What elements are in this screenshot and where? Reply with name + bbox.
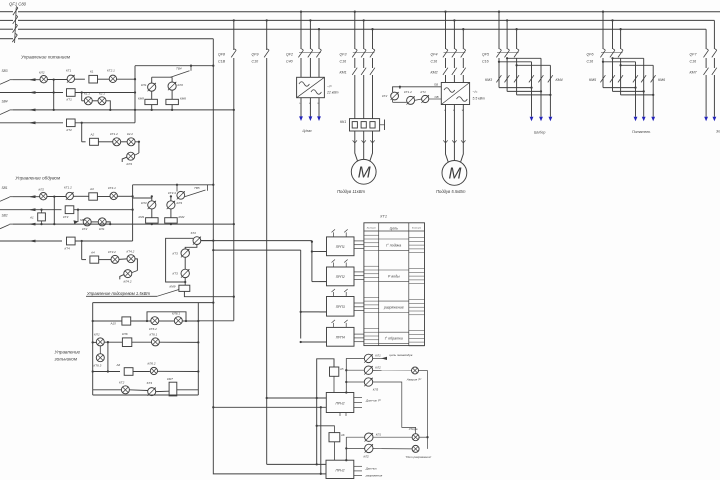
lamp KT2 aux (382, 92, 399, 100)
contact KT2o (82, 218, 91, 231)
svg-text:Управление обдувом: Управление обдувом (15, 176, 61, 181)
wire rung1 left (13, 78, 40, 81)
svg-text:Управление подогревом 1.5кВт: Управление подогревом 1.5кВт (87, 291, 151, 296)
lamp KL2 upper (364, 365, 381, 374)
wire rail B2 (131, 185, 133, 241)
svg-text:ХТ1: ХТ1 (379, 215, 387, 219)
wire rail A2 (53, 197, 55, 225)
wire rung4o left (0, 240, 62, 243)
svg-text:SB4: SB4 (2, 99, 8, 103)
svg-text:Цепь: Цепь (390, 227, 398, 231)
svg-text:Управление: Управление (55, 350, 81, 355)
svg-text:С1В: С1В (218, 60, 226, 64)
terminal device PRP3 (320, 289, 364, 316)
wire KL1 to ubora (373, 436, 412, 438)
label Управление зольником (54, 350, 81, 362)
contactor contacts KM3 KM4 (485, 75, 563, 82)
svg-text:SB3: SB3 (2, 69, 8, 73)
motor M2 5.5kW (436, 161, 467, 194)
switch TB5 (185, 185, 208, 197)
switch SB3 (0, 69, 13, 84)
svg-text:КЛ1: КЛ1 (376, 432, 382, 436)
wire zol top rail (93, 301, 215, 303)
lamp KL1 lower (365, 432, 382, 441)
svg-text:А5: А5 (339, 367, 344, 371)
wire N to PRN1 (212, 406, 326, 408)
contact KT3 heater1 (173, 249, 190, 257)
svg-text:цепь пневмодув: цепь пневмодув (389, 353, 412, 357)
circuit breaker QF9 feeder (252, 19, 270, 464)
svg-text:КМ1: КМ1 (340, 71, 347, 75)
relay coil KT1 box (67, 89, 76, 102)
wire QF6 crossover (602, 57, 655, 96)
svg-text:КТ1: КТ1 (421, 90, 427, 94)
wire bus line L1 (0, 11, 720, 13)
terminal table XT1 (364, 215, 425, 346)
switch TB4 (171, 66, 192, 78)
svg-text:QF2: QF2 (286, 53, 293, 57)
circuit breaker QF1 (9, 2, 27, 44)
device PRN2 upper (326, 393, 381, 417)
svg-text:~/=: ~/= (473, 90, 478, 94)
wire rung1o left (13, 195, 40, 198)
svg-text:КЛ2: КЛ2 (364, 455, 370, 459)
svg-text:SB1: SB1 (2, 186, 8, 190)
wire rung4 subdrop (82, 123, 86, 142)
wire rung1 c (98, 78, 110, 80)
wire sub4o b (119, 258, 127, 261)
svg-text:~/=: ~/= (327, 85, 332, 89)
svg-text:С16: С16 (431, 60, 438, 64)
wire rungD c (156, 390, 169, 392)
annotation SB1 arrow (74, 210, 86, 224)
lamp KL4 (122, 152, 139, 166)
wire PRP left bus a (311, 250, 327, 281)
label Управление питанием (21, 55, 71, 60)
wire zol bottom rail (93, 390, 199, 395)
svg-text:КМ4: КМ4 (556, 78, 563, 82)
wire pitatel outputs (634, 88, 656, 122)
wire rung4o right (75, 240, 133, 242)
wire rung2o left (0, 208, 62, 211)
wire heater chain c (184, 278, 186, 286)
wire rung4 left (0, 121, 63, 124)
svg-text:ПРН2: ПРН2 (335, 402, 344, 406)
svg-text:КЛ1: КЛ1 (99, 227, 105, 231)
svg-text:КТ4.2: КТ4.2 (127, 249, 135, 253)
contact KT4.2 (127, 249, 136, 262)
svg-text:КЛ4: КЛ4 (127, 162, 133, 166)
svg-text:5.5 кВт: 5.5 кВт (473, 97, 486, 101)
wire ubora right (419, 436, 429, 449)
circuit breaker QF8 feeder (218, 19, 236, 320)
wire bus line L2 (0, 19, 714, 21)
wire heater box (166, 238, 193, 282)
svg-text:А6: А6 (116, 363, 121, 367)
svg-text:К2.1: К2.1 (99, 92, 105, 96)
svg-text:Датчик: Датчик (365, 467, 378, 471)
svg-text:А1: А1 (29, 216, 34, 220)
wire rungC b (133, 371, 150, 373)
wire sub2o a (91, 221, 98, 223)
wire rung3 (13, 109, 235, 112)
lamp KL3 upper (364, 378, 378, 392)
wire rungA b (131, 320, 151, 322)
wire U2 to motor (443, 105, 465, 163)
svg-text:Датчик 'Р': Датчик 'Р' (365, 399, 381, 403)
lamp KL2 rung1o (39, 187, 48, 200)
svg-text:QF1 С80: QF1 С80 (9, 2, 27, 7)
contact KT3.4 o (168, 185, 185, 200)
thermal relay KK1 (340, 119, 385, 131)
relay coil KM6 coil (166, 97, 186, 105)
wire KM2 to U2 (446, 75, 464, 83)
thermostat ST2 (191, 231, 201, 245)
wire riser x320 (320, 407, 322, 475)
svg-text:Управление питанием: Управление питанием (21, 55, 71, 60)
svg-text:А2: А2 (90, 133, 95, 137)
label Ц/нас (303, 129, 313, 133)
svg-text:t° подача: t° подача (386, 243, 401, 247)
relay coil KM8 (138, 97, 157, 105)
wire pnevmo (373, 353, 413, 360)
svg-text:SB2: SB2 (2, 214, 8, 218)
lamp KL1 upper (364, 354, 381, 363)
wire rung1 a (47, 78, 67, 80)
wire lamp bus lower (345, 437, 364, 461)
wire rungC a (92, 370, 120, 372)
svg-text:КП2: КП2 (94, 333, 100, 337)
contact KT3.2 (108, 250, 119, 263)
contact K2.2 (127, 132, 135, 146)
relay coil KM9 (170, 285, 190, 292)
contact KT6.1 zol (150, 333, 160, 346)
svg-text:ОВ: ОВ (435, 95, 439, 99)
frequency converter U2 5.5kW (441, 83, 485, 105)
wire KL3 down (373, 382, 416, 434)
wire A6 feed (317, 426, 335, 433)
svg-text:QF3: QF3 (340, 53, 347, 57)
svg-text:Р воды: Р воды (388, 274, 400, 278)
svg-text:КЛ6.2: КЛ6.2 (148, 362, 156, 366)
svg-text:КТ1: КТ1 (66, 69, 72, 73)
wire heater chain a (185, 245, 197, 250)
svg-text:А15: А15 (110, 322, 117, 326)
svg-text:Контакт: Контакт (412, 227, 421, 229)
svg-text:КТ1: КТ1 (67, 98, 73, 102)
svg-text:КМ6: КМ6 (180, 97, 186, 101)
svg-text:ПРП2: ПРП2 (336, 275, 345, 279)
svg-text:Ц/нас: Ц/нас (303, 129, 313, 133)
wire rung1o d (117, 195, 133, 197)
device PRN2 lower (326, 460, 383, 478)
resistor A6 zol (116, 363, 134, 375)
svg-text:К2.2: К2.2 (127, 132, 133, 136)
wire QF4 mid (446, 58, 464, 68)
relay coil KM1 o (139, 215, 159, 223)
circuit breaker QF3 (340, 49, 375, 64)
resistor A5 (330, 367, 344, 376)
svg-text:М: М (358, 164, 371, 181)
svg-text:А6: А6 (340, 433, 345, 437)
wire A5 to PRN1 (333, 376, 335, 392)
svg-text:КМ7: КМ7 (167, 377, 173, 381)
svg-text:А3: А3 (89, 187, 94, 191)
node U1 output arrows (299, 116, 321, 121)
svg-text:ОВ: ОВ (434, 83, 438, 87)
label Управление подогревом (86, 290, 179, 297)
svg-text:КТ1.2: КТ1.2 (64, 186, 72, 190)
wire shiber outputs (530, 88, 553, 122)
svg-text:QF9: QF9 (252, 53, 259, 57)
wire neutral N drop (213, 39, 326, 474)
svg-text:КМ3: КМ3 (485, 78, 492, 82)
wire sub4o a (99, 259, 111, 261)
wire QF5 crossover (498, 57, 552, 96)
svg-text:Контакт: Контакт (367, 227, 376, 229)
lamp KL2 rung1 (39, 71, 47, 83)
svg-text:С16: С16 (690, 60, 697, 64)
svg-text:ПРН2: ПРН2 (335, 469, 344, 473)
wire lamp rail s2 (133, 195, 172, 201)
svg-text:КТ2.1: КТ2.1 (107, 69, 115, 73)
wire zol right rail (197, 303, 199, 395)
wire rungA a (92, 320, 122, 322)
resistor A4 (90, 250, 99, 263)
wire avaria right (419, 371, 428, 438)
contact KT4.1 o (108, 186, 117, 199)
svg-text:КЛ6: КЛ6 (122, 332, 128, 336)
svg-text:ПРП1: ПРП1 (336, 245, 345, 249)
svg-text:КЛ3: КЛ3 (177, 201, 183, 205)
wire ST2 to N (201, 239, 215, 241)
wire feed y250 (212, 249, 301, 339)
svg-text:С16: С16 (482, 60, 489, 64)
svg-text:КМ1: КМ1 (139, 215, 145, 219)
wire QF3 drop from bus (354, 11, 374, 49)
lamp KL4.2 (120, 270, 138, 284)
svg-text:С10: С10 (252, 60, 259, 64)
svg-text:QF4: QF4 (431, 53, 438, 57)
wire rung1 b (75, 78, 85, 80)
wire QF2 to converter (301, 58, 319, 77)
wire rungC c (158, 370, 199, 372)
svg-text:ST2: ST2 (191, 231, 197, 235)
wire heater chain b (184, 257, 186, 269)
wire rungB drop (107, 342, 109, 372)
contact KL6.2 zol (148, 362, 158, 375)
svg-text:QF8: QF8 (218, 53, 225, 57)
svg-text:КТ6.2: КТ6.2 (149, 327, 157, 331)
wire feed line TB4 (135, 65, 214, 67)
relay coil KL6 box (122, 332, 132, 347)
svg-text:КТ4.1: КТ4.1 (108, 186, 116, 190)
wire aux row frame (393, 83, 442, 103)
wire rungB a (92, 341, 97, 343)
svg-text:КЛ3: КЛ3 (141, 201, 147, 205)
wire rungB d (159, 341, 198, 343)
svg-text:ПРП4: ПРП4 (336, 335, 345, 339)
svg-text:Шибер: Шибер (534, 131, 545, 135)
wire U1 outputs (300, 98, 321, 117)
wire feed y241 (201, 241, 313, 282)
wire rung2 subdrop (82, 93, 85, 101)
svg-text:М: М (448, 165, 461, 182)
svg-text:Авария 'Р': Авария 'Р' (406, 377, 422, 381)
frequency converter U1 22kW (297, 77, 339, 97)
svg-text:разряжение: разряжение (383, 305, 404, 309)
switch SB1 (0, 186, 13, 201)
svg-text:КМ7: КМ7 (690, 71, 698, 75)
svg-text:'Нет разряжения': 'Нет разряжения' (406, 455, 432, 459)
wire sub2 b (121, 141, 127, 143)
svg-text:ST3: ST3 (147, 381, 153, 385)
wire sub4o c (135, 259, 137, 271)
wire QF2 drop from bus (300, 11, 320, 49)
relay coil KM2 o (165, 215, 185, 223)
svg-text:QF5: QF5 (482, 53, 489, 57)
svg-text:ПРП3: ПРП3 (336, 305, 345, 309)
resistor A3 (89, 187, 98, 200)
label Шибер (534, 131, 545, 135)
wire A6 to PRN2 (333, 442, 335, 460)
resistor A2 (90, 133, 99, 146)
relay KT1.2 dial o (64, 186, 74, 200)
svg-text:КТ2: КТ2 (119, 381, 125, 385)
resistor A6 lower (329, 433, 345, 442)
wire rungB c (132, 341, 152, 343)
svg-text:КЛ1: КЛ1 (141, 83, 147, 87)
svg-text:С16: С16 (340, 60, 347, 64)
wire rung1o c (97, 196, 110, 198)
contactor contacts KM1 (340, 68, 375, 75)
indicator lamp Нет разряжения (406, 445, 432, 459)
wire rungD a (93, 389, 122, 391)
svg-text:ТВ5: ТВ5 (194, 186, 200, 190)
wire KM9 to QF8 (184, 291, 233, 296)
svg-text:КТ1.2: КТ1.2 (110, 132, 118, 136)
contact KL6.1 zol (172, 311, 182, 324)
svg-text:КЛ2: КЛ2 (178, 83, 184, 87)
terminal device PRP2 (320, 260, 364, 286)
lamp KT1 aux (415, 90, 442, 103)
lamp KT1.2 aux (404, 90, 415, 105)
indicator lamp Убора (409, 427, 420, 441)
lamp KL3 s2 (141, 201, 156, 209)
relay coil KT4 box (65, 237, 76, 250)
svg-text:С16: С16 (587, 60, 594, 64)
wire KM1 to KK1 (355, 75, 373, 119)
contact KT1.2 (110, 132, 121, 146)
motor M1 11kW (337, 159, 376, 193)
wire coils to rung3 s1 (151, 105, 174, 111)
svg-text:КЛ2: КЛ2 (39, 187, 45, 191)
wire rung3o (13, 223, 235, 226)
label Зольник (716, 130, 720, 134)
svg-text:КМ9: КМ9 (170, 285, 176, 289)
svg-text:КМ2: КМ2 (179, 215, 185, 219)
svg-text:разряжения: разряжения (365, 474, 383, 478)
svg-text:зольником: зольником (54, 357, 78, 362)
contact KT3 heater2 (173, 269, 190, 277)
wire rung1o a (47, 195, 66, 197)
terminal device PRP4 (320, 320, 364, 346)
wire rail A (53, 80, 55, 111)
contact KT6.2b zol (94, 333, 104, 346)
indicator lamp Авария Р (406, 367, 422, 381)
lamp KL3b s2 (167, 201, 183, 209)
wire sub b (106, 101, 111, 111)
svg-text:Поддув 11кВт: Поддув 11кВт (337, 189, 366, 194)
svg-text:КЛ3: КЛ3 (373, 388, 379, 392)
resistor A15 (110, 317, 131, 326)
wire QF5 drop from bus (498, 11, 518, 49)
wire rung1o b (73, 195, 88, 197)
wire rung2o right (74, 209, 133, 211)
wire PRP left bus b (300, 311, 327, 343)
svg-text:КМ5: КМ5 (589, 78, 596, 82)
svg-text:С40: С40 (286, 60, 293, 64)
relay coil KM7 zol (167, 377, 177, 396)
contactor contacts KM5 KM6 (589, 75, 665, 82)
wire zol left rail (92, 303, 94, 390)
svg-text:t° обратки: t° обратки (385, 337, 403, 341)
svg-text:КЛ1: КЛ1 (375, 354, 381, 358)
wire rung4 right (75, 122, 135, 124)
circuit breaker QF2 (286, 49, 321, 64)
wire sub2 a (98, 141, 112, 143)
svg-text:КТ1.2: КТ1.2 (404, 90, 412, 94)
svg-text:КТ3: КТ3 (173, 251, 179, 255)
wire coils to rung3 s2 (151, 223, 172, 225)
circuit breaker QF6 (587, 49, 624, 64)
wire lamps to coils s1 (152, 90, 172, 99)
wire rungD b (129, 389, 147, 392)
thermostat ST3 (147, 381, 156, 396)
svg-text:КТ2: КТ2 (67, 128, 73, 132)
contact K1.1 (84, 92, 92, 105)
wire KK1 to motor (353, 131, 375, 161)
wire feed line o (133, 184, 215, 186)
wire QF6 drop from bus (602, 11, 622, 49)
wire rung2 right (75, 91, 135, 93)
svg-text:Убора: Убора (409, 427, 418, 431)
svg-text:КЛ2: КЛ2 (375, 365, 381, 369)
svg-text:КТ3.2: КТ3.2 (108, 250, 116, 254)
switch SB2 (0, 214, 13, 229)
svg-text:КМ6: КМ6 (658, 78, 665, 82)
wire KL2 to avaria (373, 369, 412, 371)
wire sub2o b (106, 222, 111, 225)
svg-text:КТ3: КТ3 (63, 215, 69, 219)
wire lamps to coils s2 (152, 209, 171, 218)
svg-text:QF6: QF6 (587, 53, 594, 57)
contact KL1o (98, 218, 106, 231)
wire QF9 to PRN1 (267, 397, 327, 399)
wire QF7 outputs (704, 75, 716, 121)
label Питатель (632, 130, 650, 134)
wire bus line L3 (0, 28, 706, 30)
wire rung2 left (0, 91, 63, 94)
relay coil K1 (89, 70, 98, 84)
svg-text:А4: А4 (90, 250, 95, 254)
wire sub a (92, 100, 98, 102)
relay coil KT2 box (67, 119, 76, 132)
wire QF7 mid (706, 58, 714, 68)
svg-text:ТВ4: ТВ4 (176, 67, 182, 71)
svg-text:Поддув 5.5кВт: Поддув 5.5кВт (436, 189, 466, 194)
svg-text:Питатель: Питатель (632, 130, 650, 134)
